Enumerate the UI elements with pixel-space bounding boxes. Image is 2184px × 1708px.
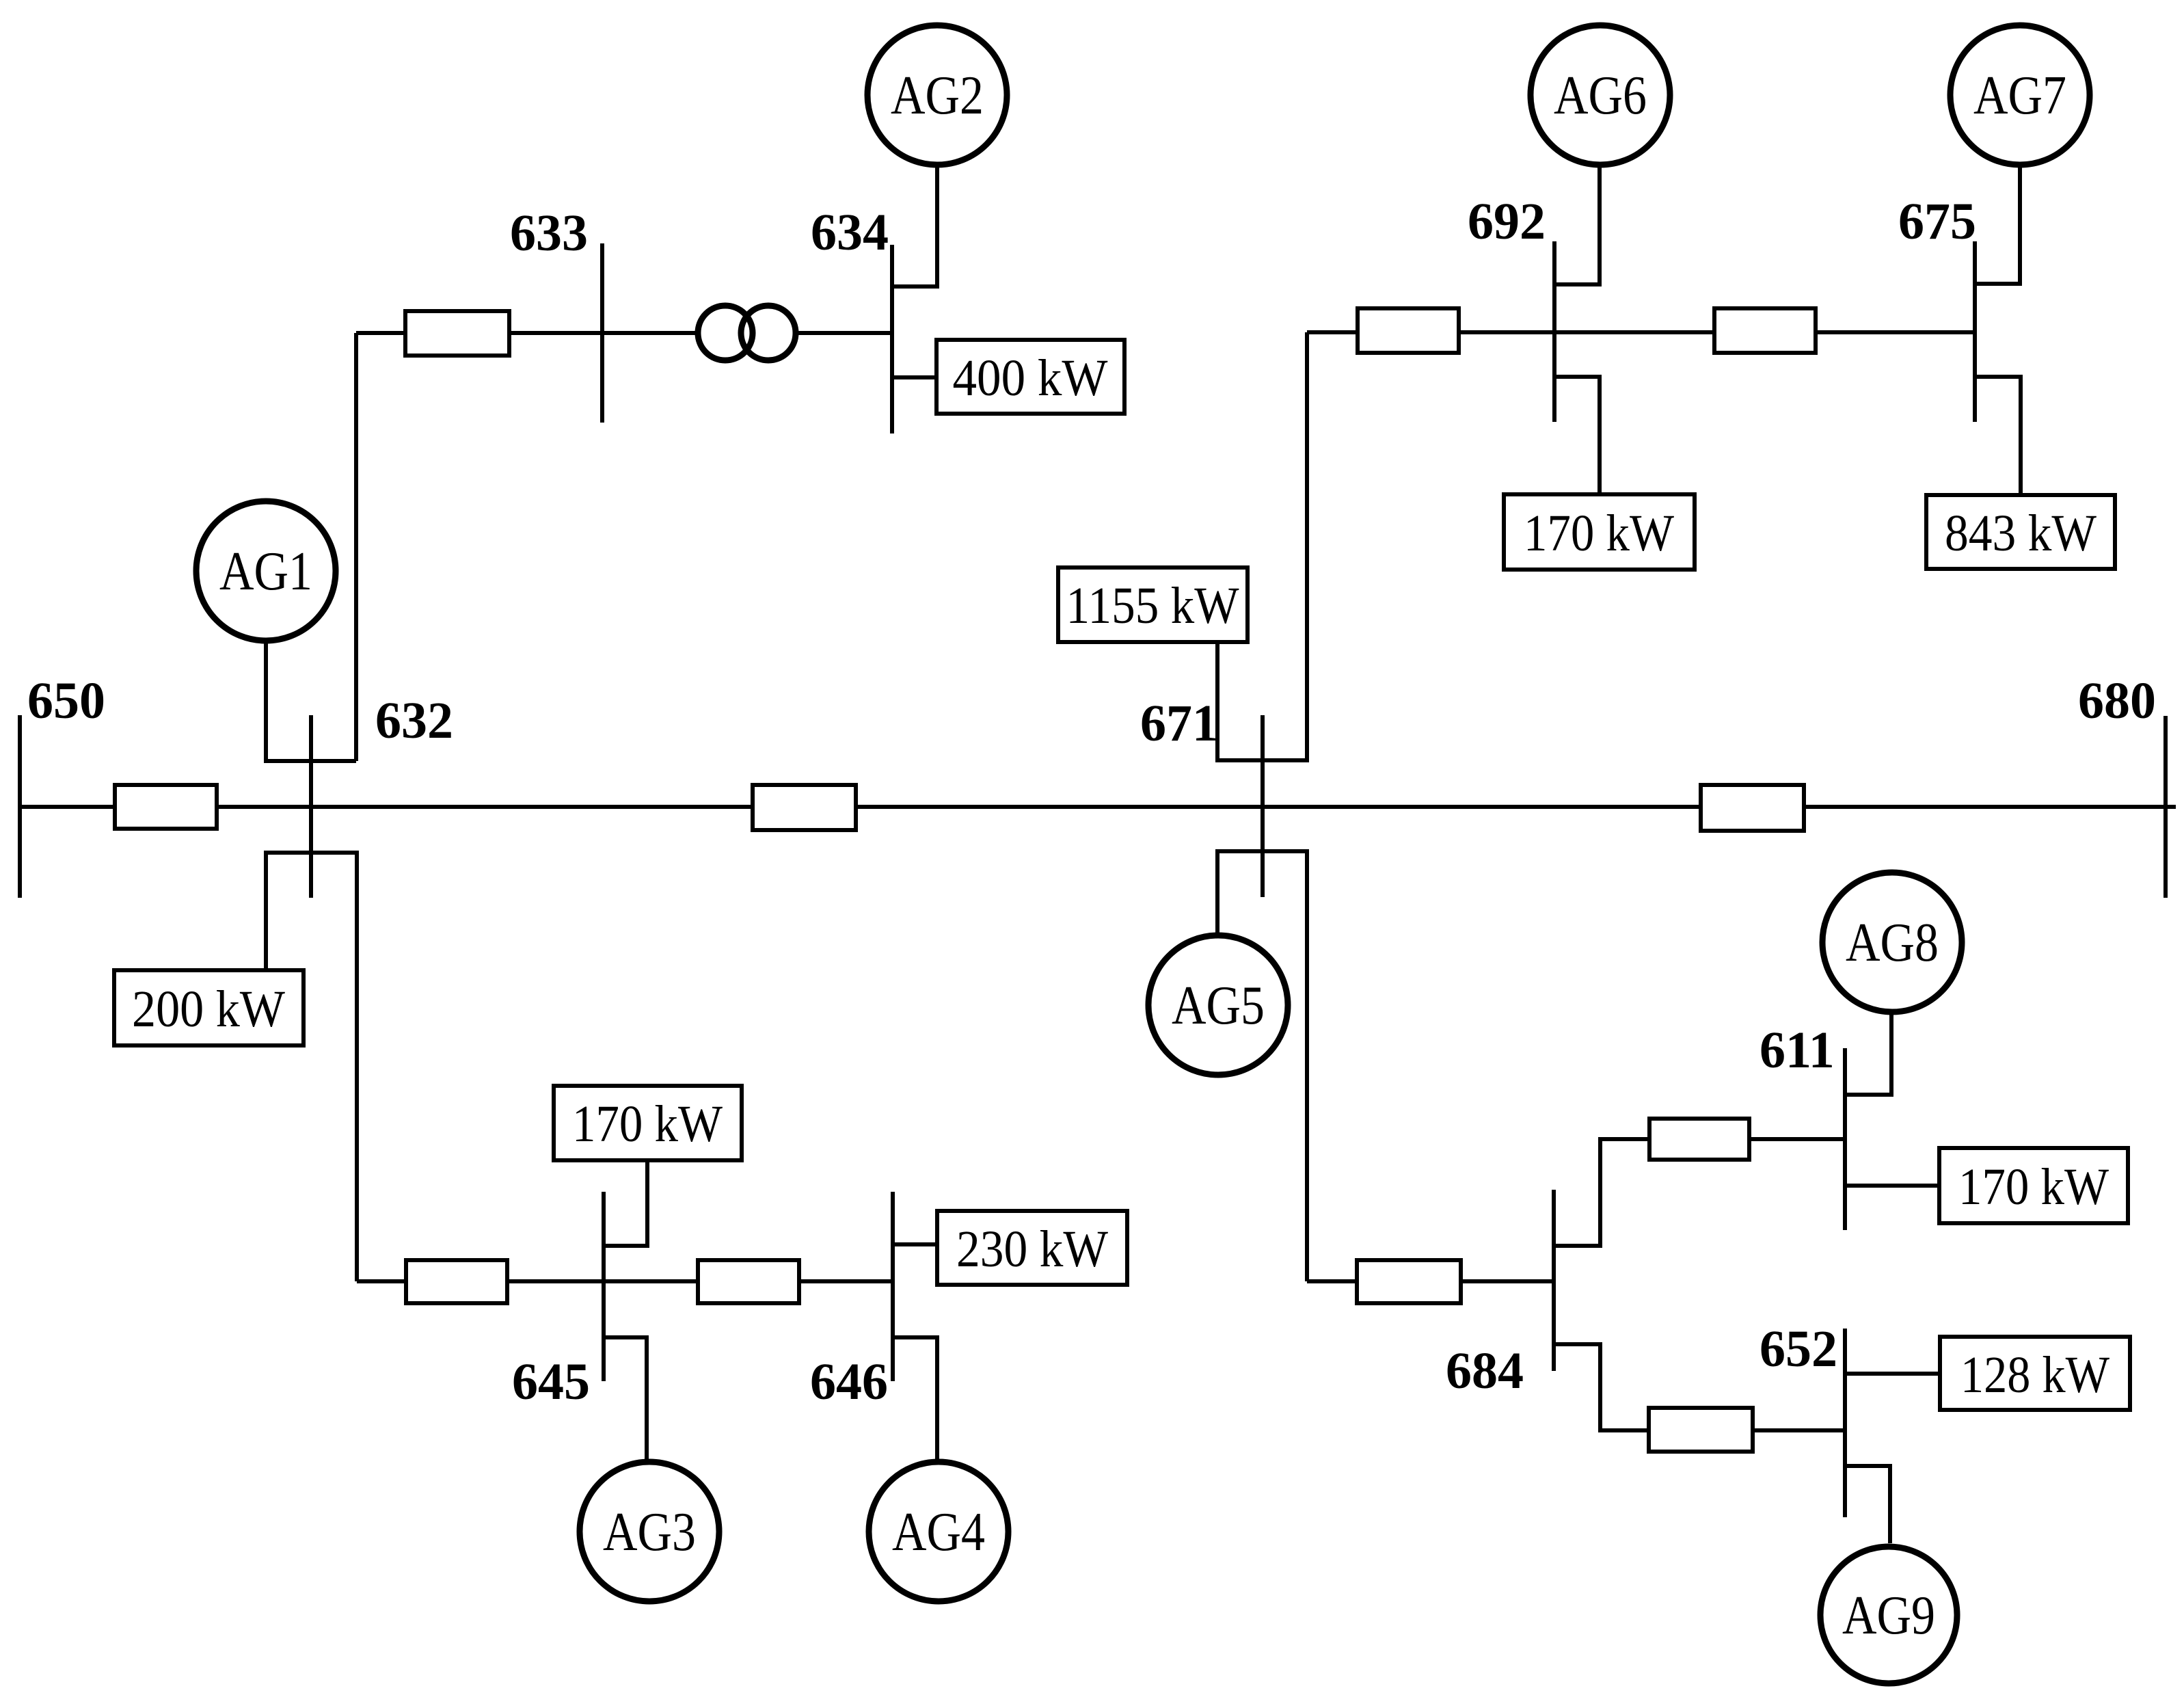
wire 684 down branch to 652 feeder xyxy=(1554,1344,1845,1430)
wire trunk 632 up to 633 feeder xyxy=(354,333,358,761)
wire stub 646 to 230 kW load xyxy=(893,1242,937,1246)
generator AG6 xyxy=(1531,25,1670,165)
resistor line segment 650-632 xyxy=(115,785,217,829)
svg-text:1155 kW: 1155 kW xyxy=(1066,577,1239,635)
resistor line segment 632-633 xyxy=(405,311,509,356)
wire main feeder 650-632-671-680 xyxy=(20,805,2176,809)
node 684 bus bar xyxy=(1552,1190,1556,1371)
svg-text:633: 633 xyxy=(510,204,588,262)
wire 684 up branch to 611 feeder xyxy=(1554,1139,1845,1246)
svg-text:170 kW: 170 kW xyxy=(572,1095,723,1153)
generator AG9 xyxy=(1820,1547,1957,1683)
load box 170 kW at 692 xyxy=(1504,494,1695,570)
svg-text:AG1: AG1 xyxy=(219,542,312,602)
wire AG6 lead to node 692 xyxy=(1554,168,1600,284)
resistor line segment 671-692 xyxy=(1358,308,1459,353)
svg-text:230 kW: 230 kW xyxy=(956,1220,1108,1278)
node 671 bus bar xyxy=(1260,715,1265,897)
generator AG3 xyxy=(580,1462,719,1601)
resistor line segment 671-680 xyxy=(1701,785,1804,831)
wire stub 634 to 400 kW load xyxy=(892,375,936,379)
transformer 633-634 xyxy=(698,306,796,360)
load box 200 kW at 632 xyxy=(114,970,304,1045)
svg-text:634: 634 xyxy=(811,204,889,261)
svg-text:671: 671 xyxy=(1140,695,1218,752)
node 633 bus bar xyxy=(600,243,604,423)
load box 400 kW at 634 xyxy=(936,340,1124,414)
wire AG8 lead to node 611 xyxy=(1845,1015,1891,1095)
wire AG7 lead to node 675 xyxy=(1975,168,2020,284)
wire 675 to 843 kW load below xyxy=(1975,377,2021,495)
generator AG1 xyxy=(196,501,336,641)
svg-text:AG8: AG8 xyxy=(1846,913,1939,973)
svg-text:632: 632 xyxy=(375,692,453,749)
wire 671 down branch to AG5 and 684 feeder xyxy=(1217,851,1307,1281)
node 650 bus bar xyxy=(18,715,22,898)
node 646 bus bar xyxy=(891,1192,895,1381)
svg-text:AG9: AG9 xyxy=(1842,1586,1935,1646)
wire feeder 632-633-634 xyxy=(356,331,695,335)
wire 645 to AG3 xyxy=(604,1337,647,1459)
wire 645 to 170 kW load above xyxy=(604,1160,647,1246)
generator AG4 xyxy=(869,1462,1008,1601)
load box 843 kW at 675 xyxy=(1926,495,2115,569)
wire stub 652 to 128 kW load xyxy=(1845,1372,1940,1376)
node 645 bus bar xyxy=(602,1192,606,1381)
svg-text:170 kW: 170 kW xyxy=(1524,505,1674,562)
node 634 bus bar xyxy=(890,245,894,433)
svg-text:680: 680 xyxy=(2078,672,2156,730)
svg-text:128 kW: 128 kW xyxy=(1960,1346,2109,1404)
svg-text:AG4: AG4 xyxy=(892,1502,985,1562)
wire feeder 632-645-646 xyxy=(357,1279,893,1283)
wire AG1 lead down to node 632 xyxy=(266,643,356,761)
resistor line segment 632-645 xyxy=(406,1260,507,1303)
node 692 bus bar xyxy=(1552,241,1556,422)
load box 170 kW at 611 xyxy=(1939,1148,2128,1223)
resistor line segment 632-671 xyxy=(753,785,856,830)
svg-text:684: 684 xyxy=(1446,1342,1524,1400)
resistor line segment 684-652 xyxy=(1649,1408,1753,1452)
svg-text:AG5: AG5 xyxy=(1172,976,1265,1036)
svg-text:611: 611 xyxy=(1760,1022,1835,1079)
node 680 bus bar xyxy=(2163,716,2168,898)
generator AG2 xyxy=(867,25,1007,165)
svg-text:692: 692 xyxy=(1468,193,1546,250)
resistor line segment 645-646 xyxy=(698,1260,799,1303)
svg-text:400 kW: 400 kW xyxy=(953,349,1108,407)
generator AG8 xyxy=(1822,872,1962,1012)
svg-text:646: 646 xyxy=(810,1353,888,1411)
load box 1155 kW at 671 xyxy=(1058,568,1248,642)
wire feeder 671-692-675 xyxy=(1307,330,1975,334)
svg-text:650: 650 xyxy=(27,672,105,730)
wire 652 to AG9 xyxy=(1845,1466,1890,1543)
node 632 bus bar xyxy=(309,715,313,898)
load box 128 kW at 652 xyxy=(1940,1337,2130,1410)
svg-text:675: 675 xyxy=(1898,193,1976,250)
wire 692 to 170 kW load below xyxy=(1554,377,1600,494)
node 675 bus bar xyxy=(1973,241,1977,422)
generator AG7 xyxy=(1950,25,2090,165)
wire stub 611 to 170 kW load xyxy=(1845,1184,1939,1188)
svg-text:843 kW: 843 kW xyxy=(1945,505,2097,562)
svg-text:AG3: AG3 xyxy=(603,1502,696,1562)
generator AG5 xyxy=(1148,935,1288,1075)
load box 170 kW at 645 xyxy=(554,1086,742,1160)
resistor line segment 692-675 xyxy=(1714,308,1816,353)
svg-text:652: 652 xyxy=(1760,1320,1837,1378)
wire feeder 671-684 xyxy=(1307,1279,1554,1283)
wire AG2 lead to node 634 xyxy=(892,168,937,286)
node 611 bus bar xyxy=(1843,1048,1847,1230)
resistor line segment 684-611 xyxy=(1649,1119,1749,1160)
wire 646 to AG4 xyxy=(893,1337,937,1459)
svg-text:AG7: AG7 xyxy=(1973,66,2066,126)
wire trunk 671 up to 692 feeder with 1155 kW tap xyxy=(1217,332,1307,760)
svg-text:AG2: AG2 xyxy=(891,66,984,126)
svg-text:170 kW: 170 kW xyxy=(1958,1158,2109,1216)
svg-text:645: 645 xyxy=(512,1353,590,1411)
load box 230 kW at 646 xyxy=(937,1211,1127,1285)
svg-text:200 kW: 200 kW xyxy=(132,980,285,1038)
node 652 bus bar xyxy=(1843,1329,1847,1517)
resistor line segment 671-684 xyxy=(1357,1260,1461,1303)
wire 632 down branch to 200 kW and 645 feeder xyxy=(266,853,357,1281)
svg-text:AG6: AG6 xyxy=(1554,66,1647,126)
